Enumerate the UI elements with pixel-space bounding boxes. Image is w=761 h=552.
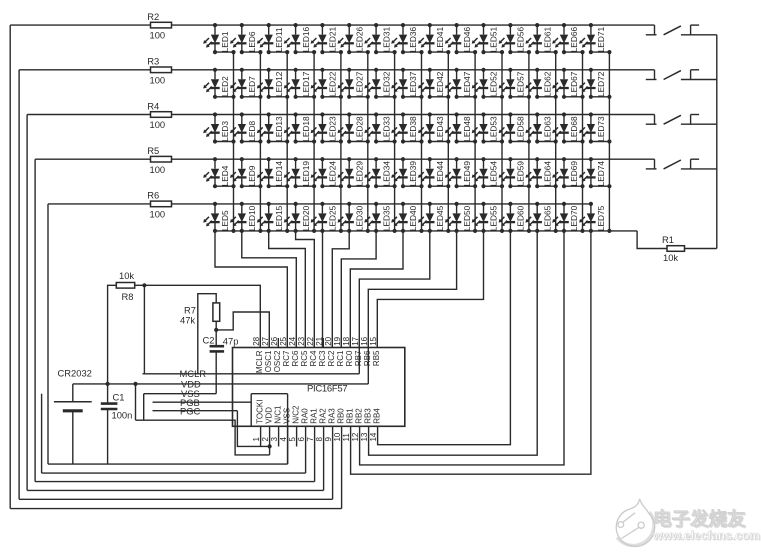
LED LED10 [230,202,257,231]
svg-text:LED62: LED62 [542,71,552,97]
LED LED65 [525,202,552,231]
svg-text:LED69: LED69 [569,161,579,187]
svg-text:LED65: LED65 [542,205,552,231]
wire cathode bus column 13 [555,52,557,231]
pin 13 RB3 [360,408,372,442]
svg-text:25: 25 [279,336,288,345]
svg-text:17: 17 [351,336,360,345]
wire row 1 horizontal [10,24,654,26]
svg-text:LED60: LED60 [516,205,526,231]
svg-text:LED43: LED43 [435,116,445,142]
svg-text:R2: R2 [147,11,159,22]
wire column 11 to pin 15 [377,231,483,348]
LED LED37 [391,68,423,99]
wire row 4 left vertical [34,159,36,481]
svg-text:47p: 47p [223,336,239,347]
capacitor C2 [203,335,239,352]
svg-text:LED13: LED13 [274,116,284,142]
wire VDD branch [135,384,137,420]
net label VSS [181,388,200,399]
wire VDD to RB6 [367,348,369,384]
LED LED47 [445,68,477,99]
svg-text:R8: R8 [122,291,134,302]
svg-text:LED45: LED45 [435,205,445,231]
svg-text:LED50: LED50 [462,205,472,231]
svg-text:LED5: LED5 [220,210,230,231]
LED LED2 [203,68,235,99]
resistor R3 [147,56,171,86]
pin 15 RB5 [369,336,381,366]
svg-text:LED63: LED63 [542,116,552,142]
svg-text:LED70: LED70 [569,205,579,231]
net label PGD [180,397,200,408]
svg-text:RB3: RB3 [363,408,372,424]
svg-text:LED74: LED74 [596,161,606,187]
wire column 12 to pin 14 [378,231,511,445]
pin 21 RC3 [315,336,327,366]
resistor R8 [116,270,134,302]
LED LED15 [257,202,284,231]
svg-text:N/C1: N/C1 [273,405,282,424]
svg-text:LED52: LED52 [489,71,499,97]
wire battery minus [72,411,74,464]
switch S4 [646,159,717,169]
svg-text:23: 23 [297,336,306,345]
pin 24 RC6 [288,336,300,366]
pin 14 RB4 [369,408,381,442]
wire right bus [716,35,718,249]
svg-text:7: 7 [306,437,315,442]
svg-text:LED15: LED15 [274,205,284,231]
wire VDD net [73,383,369,385]
wire aux loop [42,394,306,473]
pin 22 RC4 [306,336,318,366]
svg-text:OSC2: OSC2 [273,350,282,372]
node VDD C1 junction [106,382,110,386]
LED LED44 [418,157,450,188]
wire column 1 to pin 25 [215,231,287,348]
pin 16 RB6 [360,336,372,366]
wire pin 9 drop [332,426,334,499]
node VDD branch [133,382,137,386]
wire battery plus [72,384,74,402]
svg-text:11: 11 [342,433,351,442]
net label VDD [181,378,201,389]
LED LED63 [525,112,557,143]
wire MCLR drop [143,285,145,374]
svg-text:9: 9 [324,437,333,442]
svg-text:LED19: LED19 [301,161,311,187]
svg-text:10k: 10k [119,270,134,281]
LED LED70 [552,202,579,231]
LED LED5 [203,202,230,231]
wire column 7 to pin 19 [341,231,376,348]
svg-text:LED2: LED2 [220,76,230,97]
pin 1 TOCKI [252,399,264,446]
LED LED20 [284,202,311,231]
resistor R1 [662,234,685,263]
svg-text:LED66: LED66 [569,27,579,53]
svg-text:RC5: RC5 [300,350,309,367]
wire column 3 to pin 23 [269,231,306,348]
svg-text:100: 100 [150,164,166,175]
svg-text:LED22: LED22 [328,71,338,97]
svg-text:LED54: LED54 [489,161,499,187]
svg-text:R5: R5 [147,145,159,156]
wire R7 bottom to C2 [215,321,217,346]
LED LED45 [418,202,445,231]
LED LED3 [203,112,235,143]
svg-text:1: 1 [252,437,261,442]
wire MCLR net [143,373,360,375]
svg-text:LED75: LED75 [596,205,606,231]
svg-text:LED32: LED32 [381,71,391,97]
resistor R4 [147,100,171,130]
svg-text:LED4: LED4 [220,165,230,186]
wire C1 top [107,384,109,404]
wire row 3 horizontal [27,114,654,116]
pin 19 RC1 [333,336,345,366]
wire PGD net [153,401,252,403]
svg-text:RB1: RB1 [345,408,354,424]
pin 28 MCLR [252,336,264,373]
LED LED69 [552,157,584,188]
svg-text:RB4: RB4 [372,408,381,424]
wire row 5 left vertical [47,204,49,464]
wire cathode bus column 9 [447,52,449,231]
pin 11 RB1 [342,408,354,442]
svg-text:47k: 47k [180,315,195,326]
svg-text:RA2: RA2 [318,408,327,424]
node column junction dots [213,229,612,233]
svg-text:LED40: LED40 [408,205,418,231]
wire cathode bus column 2 [259,52,261,231]
svg-text:LED47: LED47 [462,71,472,97]
svg-text:LED30: LED30 [354,205,364,231]
svg-text:N/C2: N/C2 [291,405,300,424]
wire pin4 drop [287,394,289,464]
LED LED13 [257,112,289,143]
svg-text:22: 22 [306,336,315,345]
LED LED56 [499,23,531,54]
wire pin 6 drop [305,426,307,473]
LED LED32 [364,68,396,99]
LED LED8 [230,112,263,143]
wire bottom loop row 4 [35,481,315,483]
svg-text:LED35: LED35 [381,205,391,231]
pin 4 VSS [279,408,291,464]
svg-text:18: 18 [342,336,351,345]
wire column 2 to pin 24 [242,231,296,348]
LED LED12 [257,68,289,99]
wire PGC route [237,411,269,447]
wire MCLR to RB7 [358,348,360,374]
svg-text:C1: C1 [113,391,125,402]
svg-text:TOCKI: TOCKI [255,399,264,423]
svg-text:LED51: LED51 [489,27,499,53]
LED LED46 [445,23,477,54]
wire VSS net [144,393,217,395]
svg-text:LED49: LED49 [462,161,472,187]
wire pin 7 drop [314,426,316,481]
wire column 6 to pin 20 [332,231,349,348]
svg-text:100: 100 [150,119,166,130]
LED LED30 [338,202,365,231]
wire R1 to bus [685,248,717,250]
wire bottom loop row 3 [27,489,324,491]
svg-text:LED14: LED14 [274,161,284,187]
LED LED34 [364,157,396,188]
pin 20 RC2 [324,336,336,366]
svg-text:LED39: LED39 [408,161,418,187]
svg-text:4: 4 [279,437,288,442]
wire row 1 left vertical [9,25,11,509]
LED LED28 [338,112,370,143]
svg-text:LED18: LED18 [301,116,311,142]
svg-text:16: 16 [360,336,369,345]
wire pin 8 drop [323,426,325,490]
svg-text:LED61: LED61 [542,27,552,53]
svg-text:3: 3 [270,437,279,442]
wire cathode bus column 5 [340,52,342,231]
svg-text:13: 13 [360,432,369,441]
svg-text:LED3: LED3 [220,121,230,142]
LED LED40 [391,202,418,231]
LED LED1 [203,23,235,54]
pin 5 N/C2 [288,405,300,446]
svg-text:RC4: RC4 [309,350,318,367]
LED LED53 [472,112,504,143]
pin 17 RB7 [351,336,363,366]
svg-text:CR2032: CR2032 [58,368,92,379]
svg-text:R4: R4 [147,100,159,111]
svg-text:10: 10 [333,432,342,441]
LED LED71 [579,23,611,54]
wire C1 bottom [107,409,109,464]
svg-text:LED29: LED29 [354,161,364,187]
wire cathode bus column 15 [608,52,610,231]
wire osc node to OSC1 [216,312,269,348]
LED LED57 [499,68,531,99]
wire column 9 to pin 17 [359,231,430,348]
svg-text:LED46: LED46 [462,27,472,53]
svg-text:27: 27 [261,336,270,345]
svg-text:www.elecfans.com: www.elecfans.com [652,529,760,543]
svg-text:R3: R3 [147,56,159,67]
svg-text:LED34: LED34 [381,161,391,187]
wire column 4 to pin 22 [296,231,315,348]
LED LED64 [525,157,557,188]
svg-text:RC0: RC0 [345,350,354,367]
LED LED29 [338,157,370,188]
wire row 2 horizontal [19,69,654,71]
LED LED24 [311,157,343,188]
svg-text:RA0: RA0 [300,408,309,424]
svg-text:LED71: LED71 [596,27,606,53]
wire ground line [48,463,288,465]
wire bottom loop row 1 [10,508,341,510]
svg-text:LED12: LED12 [274,71,284,97]
svg-text:LED56: LED56 [516,27,526,53]
svg-text:15: 15 [369,336,378,345]
resistor R7 [180,303,220,326]
svg-text:RA1: RA1 [309,408,318,424]
LED LED39 [391,157,423,188]
wire column 13 to pin 13 [369,231,538,455]
pin 2 VDD [261,407,273,455]
pin 26 OSC2 [270,336,282,372]
LED LED4 [203,157,235,188]
svg-text:R1: R1 [662,234,674,245]
svg-text:LED72: LED72 [596,71,606,97]
node osc junction [214,328,218,332]
switch S1 [646,25,717,35]
svg-text:LED27: LED27 [354,71,364,97]
svg-text:PGC: PGC [180,406,201,417]
svg-text:LED10: LED10 [247,205,257,231]
svg-text:LED58: LED58 [516,116,526,142]
svg-text:LED68: LED68 [569,116,579,142]
LED LED72 [579,68,611,99]
LED LED43 [418,112,450,143]
LED LED50 [445,202,472,231]
svg-text:LED16: LED16 [301,27,311,53]
svg-text:LED6: LED6 [247,31,257,52]
wire cathode bus column 6 [367,52,369,231]
svg-text:LED1: LED1 [220,31,230,52]
pin 23 RC5 [297,336,309,366]
capacitor C1 [101,391,133,420]
wire cathode bus column 1 [233,52,235,231]
LED LED52 [472,68,504,99]
LED LED54 [472,157,504,188]
wire column 15 to pin 11 [351,231,591,474]
wire cathode bus column 12 [528,52,530,231]
LED LED51 [472,23,504,54]
LED LED59 [499,157,531,188]
switch S2 [646,70,717,80]
LED LED36 [391,23,423,54]
svg-text:LED20: LED20 [301,205,311,231]
wire row 2 left vertical [18,70,20,500]
LED LED48 [445,112,477,143]
svg-text:LED17: LED17 [301,71,311,97]
svg-text:100: 100 [150,74,166,85]
resistor R6 [147,190,171,220]
svg-text:5: 5 [288,437,297,442]
pin 9 RA3 [324,408,336,442]
wire bottom line to R1 [637,231,667,249]
svg-text:LED8: LED8 [247,121,257,142]
svg-text:LED37: LED37 [408,71,418,97]
svg-text:RC3: RC3 [318,350,327,367]
svg-text:C2: C2 [203,335,215,346]
wire bottom loop row 2 [19,498,333,500]
wire VSS segment right [251,394,287,427]
svg-text:19: 19 [333,336,342,345]
svg-text:100: 100 [150,30,166,41]
LED LED41 [418,23,450,54]
LED LED66 [552,23,584,54]
svg-text:RB2: RB2 [354,408,363,424]
wire PGC net [153,410,238,412]
svg-text:LED64: LED64 [542,161,552,187]
LED LED68 [552,112,584,143]
svg-text:LED53: LED53 [489,116,499,142]
svg-text:LED42: LED42 [435,71,445,97]
LED LED74 [579,157,611,188]
battery CR2032 [54,368,92,411]
svg-text:24: 24 [288,336,297,345]
wire cathode bus column 11 [501,52,503,231]
svg-text:LED31: LED31 [381,27,391,53]
svg-text:RC1: RC1 [336,350,345,367]
LED LED19 [284,157,316,188]
svg-text:28: 28 [252,336,261,345]
wire VSS left drop [143,394,145,421]
pin 10 RB0 [333,408,345,442]
wire column 14 to pin 12 [360,231,564,465]
wire column 10 to pin 16 [368,231,456,348]
svg-text:10k: 10k [663,252,678,263]
LED LED60 [499,202,526,231]
switch S3 [646,115,717,125]
svg-text:21: 21 [315,336,324,345]
svg-text:LED57: LED57 [516,71,526,97]
svg-text:LED36: LED36 [408,27,418,53]
LED LED49 [445,157,477,188]
svg-text:26: 26 [270,336,279,345]
svg-text:LED41: LED41 [435,27,445,53]
resistor R5 [147,145,171,175]
wire cathode bus column 10 [474,52,476,231]
LED LED38 [391,112,423,143]
svg-text:LED55: LED55 [489,205,499,231]
LED LED21 [311,23,343,54]
LED LED33 [364,112,396,143]
svg-text:LED9: LED9 [247,165,257,186]
LED LED7 [230,68,263,99]
svg-text:MCLR: MCLR [255,350,264,373]
svg-text:R6: R6 [147,190,159,201]
wire bottom column line [215,230,637,232]
svg-text:LED73: LED73 [596,116,606,142]
svg-text:LED44: LED44 [435,161,445,187]
svg-text:12: 12 [351,432,360,441]
wire cathode bus column 7 [394,52,396,231]
svg-text:LED24: LED24 [328,161,338,187]
pin 18 RC0 [342,336,354,366]
wire row 5 horizontal [48,203,591,205]
wire R7 top [198,294,216,374]
svg-text:LED48: LED48 [462,116,472,142]
LED LED25 [311,202,338,231]
svg-text:LED28: LED28 [354,116,364,142]
svg-text:LED59: LED59 [516,161,526,187]
LED LED55 [472,202,499,231]
svg-text:RC6: RC6 [291,350,300,367]
IC U1 PIC16F57 [233,348,405,427]
LED LED27 [338,68,370,99]
svg-text:LED11: LED11 [274,27,284,52]
svg-text:RC7: RC7 [282,350,291,367]
LED LED61 [525,23,557,54]
LED LED16 [284,23,316,54]
wire column 8 to pin 18 [350,231,403,348]
wire row 4 horizontal [35,158,654,160]
LED LED22 [311,68,343,99]
LED LED14 [257,157,289,188]
